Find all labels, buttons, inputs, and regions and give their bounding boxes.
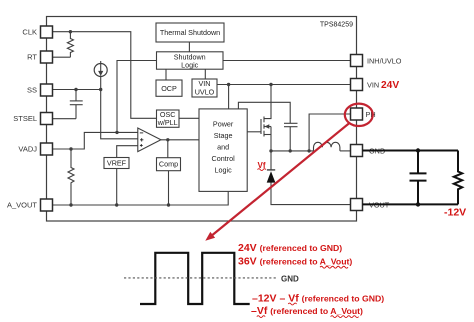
svg-text:–12V – Vf (referenced to GND): –12V – Vf (referenced to GND) [252, 293, 384, 305]
svg-text:Logic: Logic [181, 60, 199, 69]
svg-text:STSEL: STSEL [13, 114, 37, 123]
svg-text:UVLO: UVLO [195, 87, 215, 96]
svg-text:CLK: CLK [22, 28, 37, 37]
svg-text:TPS84259: TPS84259 [320, 21, 353, 28]
svg-text:OCP: OCP [161, 84, 177, 93]
svg-text:Comp: Comp [159, 160, 178, 169]
svg-text:24V (referenced to GND): 24V (referenced to GND) [238, 242, 342, 254]
svg-text:Control: Control [212, 154, 236, 163]
svg-text:VREF: VREF [107, 159, 127, 168]
svg-text:SS: SS [27, 86, 37, 95]
svg-text:Logic: Logic [215, 165, 233, 174]
svg-text:36V (referenced to A_Vout): 36V (referenced to A_Vout) [238, 256, 352, 268]
svg-text:-12V: -12V [444, 207, 466, 219]
svg-text:VIN: VIN [367, 80, 379, 89]
svg-text:RT: RT [27, 53, 37, 62]
svg-text:Power: Power [213, 119, 234, 128]
svg-text:and: and [217, 142, 229, 151]
svg-text:A_VOUT: A_VOUT [7, 201, 37, 210]
svg-text:w/PLL: w/PLL [157, 118, 178, 127]
svg-text:24V: 24V [381, 80, 399, 91]
svg-text:VADJ: VADJ [18, 145, 37, 154]
svg-text:GND: GND [281, 274, 299, 283]
svg-text:–Vf (referenced to A_Vout): –Vf (referenced to A_Vout) [251, 305, 363, 317]
svg-text:Thermal Shutdown: Thermal Shutdown [160, 28, 220, 37]
svg-text:PH: PH [366, 110, 376, 119]
svg-text:Stage: Stage [214, 131, 233, 140]
svg-text:INH/UVLO: INH/UVLO [367, 56, 402, 65]
